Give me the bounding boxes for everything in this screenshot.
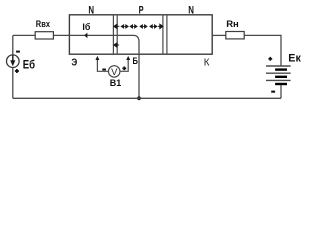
resistor Rvx <box>35 32 53 39</box>
junction arrow collector (right) <box>158 24 163 28</box>
Eb arrow (down) inside circle <box>12 55 14 61</box>
voltmeter right probe wire <box>120 59 128 72</box>
emitter junction line 1 <box>112 15 114 54</box>
collector junction line 2 <box>166 15 168 54</box>
voltmeter right probe arrowhead <box>126 56 130 60</box>
svg-text:P: P <box>139 5 144 17</box>
battery Ek plate long 3 <box>266 79 291 81</box>
plus sign at voltmeter <box>122 67 126 71</box>
svg-text:N: N <box>188 5 194 17</box>
junction dot base wire to bottom bus <box>137 96 141 100</box>
transistor body box <box>69 15 212 54</box>
resistor Rn <box>226 32 244 39</box>
bottom bus wire <box>13 97 281 99</box>
wire from battery bottom to bus <box>280 85 282 98</box>
plus sign at Ek <box>268 57 272 61</box>
plus sign at Eb <box>15 69 19 73</box>
svg-text:Б: Б <box>133 56 139 67</box>
svg-text:N: N <box>88 5 94 17</box>
battery Ek plate long 1 <box>266 65 291 67</box>
svg-text:Э: Э <box>71 56 77 68</box>
junction arrow emitter top (left) <box>114 24 120 28</box>
svg-text:В1: В1 <box>110 78 122 88</box>
voltmeter left probe wire <box>97 59 108 72</box>
wire from Rn to battery top <box>244 35 281 66</box>
wire: base input horizontal with curve down <box>13 35 139 98</box>
double arrow 3 in P region <box>140 25 147 28</box>
svg-text:К: К <box>204 57 210 68</box>
junction arrow emitter bottom (left) <box>114 43 119 47</box>
double arrow 4 in P region <box>150 25 157 28</box>
svg-text:V: V <box>111 67 118 78</box>
double arrow 2 in P region <box>130 25 137 28</box>
minus sign at voltmeter <box>102 69 106 71</box>
collector junction line 1 <box>162 15 164 54</box>
minus sign at Eb <box>16 51 20 53</box>
battery Ek plate short 3 <box>275 83 287 85</box>
svg-text:Rвх: Rвх <box>36 19 51 29</box>
battery Ek plate short 2 <box>275 76 287 78</box>
voltmeter left probe arrowhead <box>95 56 99 60</box>
Ib current arrow on wire <box>84 33 87 39</box>
double arrow 1 in P region <box>121 25 128 28</box>
svg-text:Еб: Еб <box>23 60 35 72</box>
battery Ek plate short 1 <box>275 68 287 70</box>
svg-text:Ек: Ек <box>288 53 301 65</box>
svg-text:Iб: Iб <box>82 22 90 33</box>
emitter junction line 2 <box>116 15 118 54</box>
voltmeter V1 circle <box>108 66 120 78</box>
EMF source Eb circle <box>7 55 20 68</box>
left vertical wire through Eb <box>12 35 14 98</box>
svg-text:Rн: Rн <box>226 19 239 30</box>
minus sign at Ek <box>271 91 275 93</box>
wire from collector to Rn <box>212 34 226 36</box>
battery Ek plate long 2 <box>266 72 291 74</box>
